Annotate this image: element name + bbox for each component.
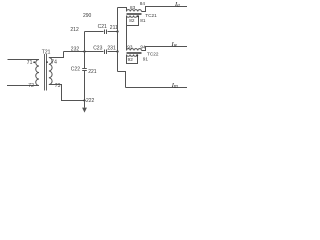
polarity dot primary [33,61,35,63]
svg-text:Im: Im [171,82,178,90]
label 91 [143,56,149,61]
transformer T21 core [45,54,47,91]
wire: pin 84 step up to output Ia [142,7,188,12]
pin label 73 [55,83,61,89]
capacitor C21 [105,30,107,35]
svg-text:211: 211 [110,25,118,31]
label 82 [129,18,135,23]
label 211 [110,25,118,31]
svg-text:221: 221 [88,69,97,75]
transformer TC21 core [127,13,142,14]
svg-text:C22: C22 [71,67,80,73]
TC22 secondary loop box [127,55,138,64]
svg-text:Ia: Ia [174,1,180,9]
label 290 [83,13,92,19]
wire: rail A top over to TC21 pin 83 [118,8,127,12]
ground arrow stem [84,101,86,108]
transformer TC21 primary winding (83-84) [127,10,142,12]
pin label 74 [51,59,57,65]
svg-text:92: 92 [128,57,134,62]
label 221 [88,69,97,75]
transformer T21 secondary winding (pins 74-73) [49,58,52,85]
label C22 [71,67,80,73]
wire: rail A vertical [117,8,119,72]
node dot row 231 at rail A [116,50,118,52]
svg-text:212: 212 [70,27,79,33]
label 93 [127,45,133,50]
transformer T21 label [42,49,51,55]
wire: rail A bottom jog toward output [118,72,126,88]
wire: pin 74 up to node 232 row [49,52,64,58]
svg-text:82: 82 [129,18,135,23]
ground node 222 junction dot [83,99,85,101]
node 232 junction dot [83,50,85,52]
label 232 [71,47,80,53]
svg-text:83: 83 [130,5,136,10]
wire: row 211 right of C21 to rail A [108,31,118,33]
svg-text:231: 231 [107,45,116,51]
transformer TC22 core [127,52,142,53]
svg-text:93: 93 [127,45,133,50]
svg-text:81: 81 [140,18,146,23]
junction dot TC21 loop [137,15,139,17]
label 94 [140,45,146,50]
transformer TC21 secondary winding (82-81) [127,16,138,18]
svg-text:72: 72 [28,83,34,89]
svg-text:290: 290 [83,13,92,19]
svg-text:91: 91 [143,56,149,61]
wire: row 231/232 left segment [64,51,104,53]
wire: pin 73 lead down to ground node [49,85,85,101]
TC21 secondary loop box [127,16,139,26]
wire: pin 94 step up to output Iw [142,47,188,51]
wire: row 211 from corner to C21 [85,31,104,33]
label 92 [128,57,134,62]
transformer TC22 secondary winding (92-91) [127,55,138,57]
label C21 [98,24,107,30]
polarity dot secondary [46,61,48,63]
svg-text:C23: C23 [93,45,102,51]
wire: center rail below C22 to ground node [84,71,86,101]
svg-text:Iw: Iw [171,41,178,49]
pin label 72 [28,83,34,89]
label Im [171,82,178,90]
wire: primary top lead from left edge [8,59,39,61]
pin label 71 [27,60,33,66]
wire: primary bottom lead from left edge [7,85,39,87]
node dot row 211 at rail A [116,30,118,32]
label Ia [174,1,180,9]
svg-text:232: 232 [71,47,80,53]
label TC22 [147,51,159,56]
label TC21 [145,13,157,18]
ground arrow head [82,108,87,113]
label Iw [171,41,178,49]
transformer T21 primary winding (pins 71-72) [36,60,39,86]
svg-text:71: 71 [27,60,33,66]
label 222 [86,98,95,104]
svg-text:84: 84 [140,1,146,6]
capacitor C22 [82,69,87,71]
svg-text:73: 73 [55,83,61,89]
wire: bottom output lead to right edge [126,87,188,89]
label 231 [107,45,116,51]
junction dot TC22 loop [136,54,138,56]
label C23 [93,45,102,51]
transformer TC22 primary winding (93-94) [127,49,142,51]
wire: row 231 right segment to rail A [108,51,118,53]
label 83 [130,5,136,10]
label 84 [140,1,146,6]
svg-text:222: 222 [86,98,95,104]
capacitor C23 [105,50,107,55]
svg-text:TC21: TC21 [145,13,157,18]
label 212 [70,27,79,33]
svg-text:74: 74 [51,59,57,65]
svg-text:TC22: TC22 [147,51,159,56]
wire: vertical link TC21 loop to TC22 pin 93 [126,26,128,51]
svg-text:C21: C21 [98,24,107,30]
label 81 [140,18,146,23]
wire: center rail from row 211 corner down to C22 [84,32,86,69]
